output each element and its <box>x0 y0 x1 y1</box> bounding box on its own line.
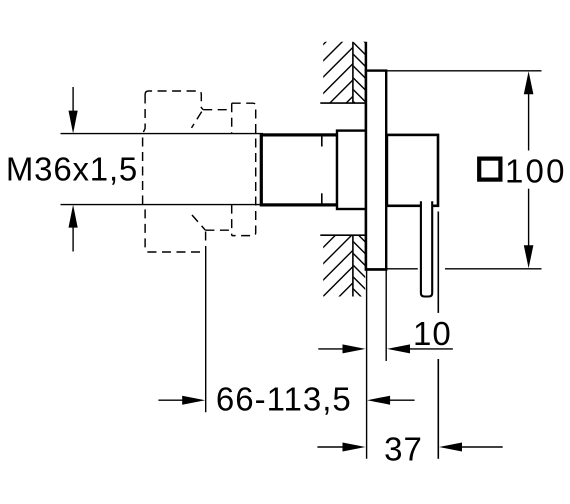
svg-text:M36x1,5: M36x1,5 <box>6 150 138 187</box>
dimension M36x1,5 <box>72 87 74 252</box>
flange block at wall <box>337 131 366 209</box>
thread end tick bottom <box>321 193 323 205</box>
svg-text:37: 37 <box>384 430 423 467</box>
wall inner line upper <box>352 42 354 103</box>
wall hatching lower <box>314 215 367 322</box>
dimension square 100 <box>386 70 541 72</box>
svg-text:66-113,5: 66-113,5 <box>216 381 352 418</box>
dashed union nut left edge segments <box>231 103 233 133</box>
svg-text:100: 100 <box>505 153 567 190</box>
lever <box>421 201 432 296</box>
M36 top extension line <box>61 133 264 135</box>
dashed union nut outline <box>232 103 256 235</box>
wall face line <box>365 42 368 271</box>
dashed body: cone top <box>192 112 202 128</box>
wall inner line lower <box>352 235 354 296</box>
wall face extension line down <box>366 271 368 459</box>
dashed rough-in body: big block <box>143 91 256 252</box>
dashed body: sleeve bottom edge <box>205 229 231 231</box>
lower wall top edge <box>320 234 366 236</box>
dashed body: stub below cone <box>205 232 207 247</box>
threaded spigot (solid) <box>261 135 337 205</box>
svg-text:10: 10 <box>413 315 452 352</box>
dashed body: sleeve top edge <box>203 109 231 111</box>
M36 bottom extension line <box>61 204 264 206</box>
dimension 66-113,5 <box>158 247 414 413</box>
dimension 10 <box>318 270 453 361</box>
escutcheon plate <box>366 71 386 270</box>
dimension 37 <box>317 212 502 459</box>
dashed body: cone bottom <box>192 215 205 230</box>
handle block <box>387 135 438 206</box>
upper wall bottom edge <box>320 102 366 104</box>
wall hatching upper <box>314 28 367 136</box>
thread end tick top <box>321 135 323 147</box>
square symbol <box>479 159 500 180</box>
